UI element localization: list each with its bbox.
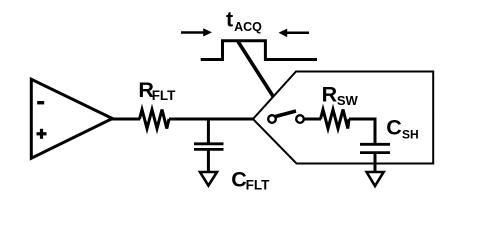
label R_SW (322, 83, 359, 109)
switch SW lever (276, 111, 297, 117)
wire R_FLT to node (169, 118, 253, 121)
svg-text:R: R (322, 83, 338, 107)
svg-text:FLT: FLT (152, 88, 176, 103)
switch SW right contact (296, 115, 304, 123)
resistor R_FLT (140, 110, 170, 129)
ground for C_FLT (200, 172, 217, 186)
switch SW left contact (268, 115, 276, 123)
ground for C_SH (367, 172, 384, 186)
op-amp non-inverting input label + (37, 129, 47, 139)
wire R_SW to C_SH (349, 119, 375, 143)
sample-and-hold box (253, 72, 433, 164)
svg-text:ACQ: ACQ (234, 20, 262, 34)
svg-text:t: t (226, 8, 233, 32)
wire op-amp output to R_FLT (112, 118, 141, 121)
switch control actuator line (238, 42, 273, 97)
capacitor C_SH (360, 144, 390, 172)
capacitor C_FLT (194, 119, 224, 172)
resistor R_SW (321, 110, 350, 129)
svg-text:C: C (231, 168, 247, 192)
svg-text:SW: SW (337, 93, 359, 108)
svg-text:C: C (386, 116, 402, 140)
label t_ACQ (226, 8, 262, 34)
t_ACQ pulse waveform (201, 41, 317, 60)
label R_FLT (138, 78, 176, 103)
wire switch to R_SW (304, 118, 321, 121)
label C_SH (386, 116, 418, 142)
svg-text:FLT: FLT (246, 177, 270, 192)
left arrow (181, 28, 212, 36)
op-amp U1 (31, 79, 112, 158)
op-amp inverting input label - (37, 101, 44, 104)
label C_FLT (231, 168, 270, 193)
svg-text:SH: SH (402, 127, 419, 141)
right arrow (279, 29, 310, 37)
